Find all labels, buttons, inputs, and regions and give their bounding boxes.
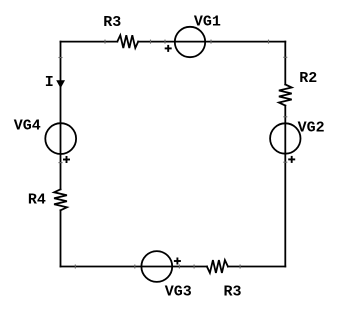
voltage source VG2 xyxy=(270,123,300,153)
voltage source VG1 xyxy=(175,27,205,57)
wire top-right segment xyxy=(138,41,285,43)
wire left-bottom segment xyxy=(60,210,62,266)
svg-text:R3: R3 xyxy=(224,284,242,301)
polarity plus VG2 xyxy=(288,156,295,163)
resistor R2 (right) xyxy=(279,85,292,106)
voltage source VG3 xyxy=(141,251,172,282)
resistor R3 (bottom) xyxy=(207,260,228,273)
svg-text:I: I xyxy=(45,74,54,91)
svg-text:VG4: VG4 xyxy=(14,118,41,135)
polarity plus VG3 xyxy=(174,258,181,265)
pin tick marks xyxy=(59,40,288,269)
svg-text:VG1: VG1 xyxy=(194,14,221,31)
polarity plus VG4 xyxy=(63,156,70,163)
wire left-top segment xyxy=(60,42,62,190)
svg-text:VG2: VG2 xyxy=(298,119,325,136)
current arrow I xyxy=(56,80,65,88)
wire bottom-left segment xyxy=(61,266,207,268)
svg-text:VG3: VG3 xyxy=(165,284,192,301)
wire top-left segment xyxy=(61,41,118,43)
wire right-bottom segment xyxy=(284,106,286,267)
polarity plus VG1 xyxy=(165,45,172,52)
voltage source VG4 xyxy=(45,123,76,154)
svg-text:R3: R3 xyxy=(103,14,121,31)
svg-text:R4: R4 xyxy=(28,192,46,209)
resistor R3 (top) xyxy=(117,35,138,48)
svg-text:R2: R2 xyxy=(299,70,317,87)
resistor R4 (left) xyxy=(54,189,67,210)
wire right-top segment xyxy=(284,42,286,85)
wire bottom-right segment xyxy=(228,266,285,268)
